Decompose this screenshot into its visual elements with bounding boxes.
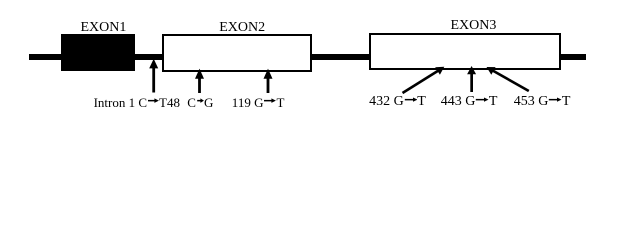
exon box EXON3 (open) [369,33,560,70]
label EXON2 [219,21,265,35]
arrow: 432 G->T mutation pointer (diagonal up-right) [403,67,445,93]
arrow: 48 C->G mutation pointer [195,69,204,93]
label EXON1 [81,21,127,35]
exon box EXON2 (open) [162,34,312,72]
label 48 C->G [187,96,213,109]
label 453 G->T [514,95,571,109]
label 443 G->T [441,95,498,109]
label 119 G->T [232,96,285,109]
arrow: 119 G->T mutation pointer [264,69,273,93]
arrow: 453 G->T mutation pointer (diagonal up-left) [487,67,529,91]
label EXON3 [451,19,497,33]
label 432 G->T [369,95,426,109]
wire: gene backbone line [29,54,586,61]
exon box EXON1 (filled) [61,34,136,71]
arrows overlay [0,0,638,133]
arrow: 443 G->T mutation pointer (vertical) [467,66,476,92]
label Intron 1 C->T48 [94,96,180,109]
arrow: Intron 1 C->T mutation pointer [149,59,158,93]
